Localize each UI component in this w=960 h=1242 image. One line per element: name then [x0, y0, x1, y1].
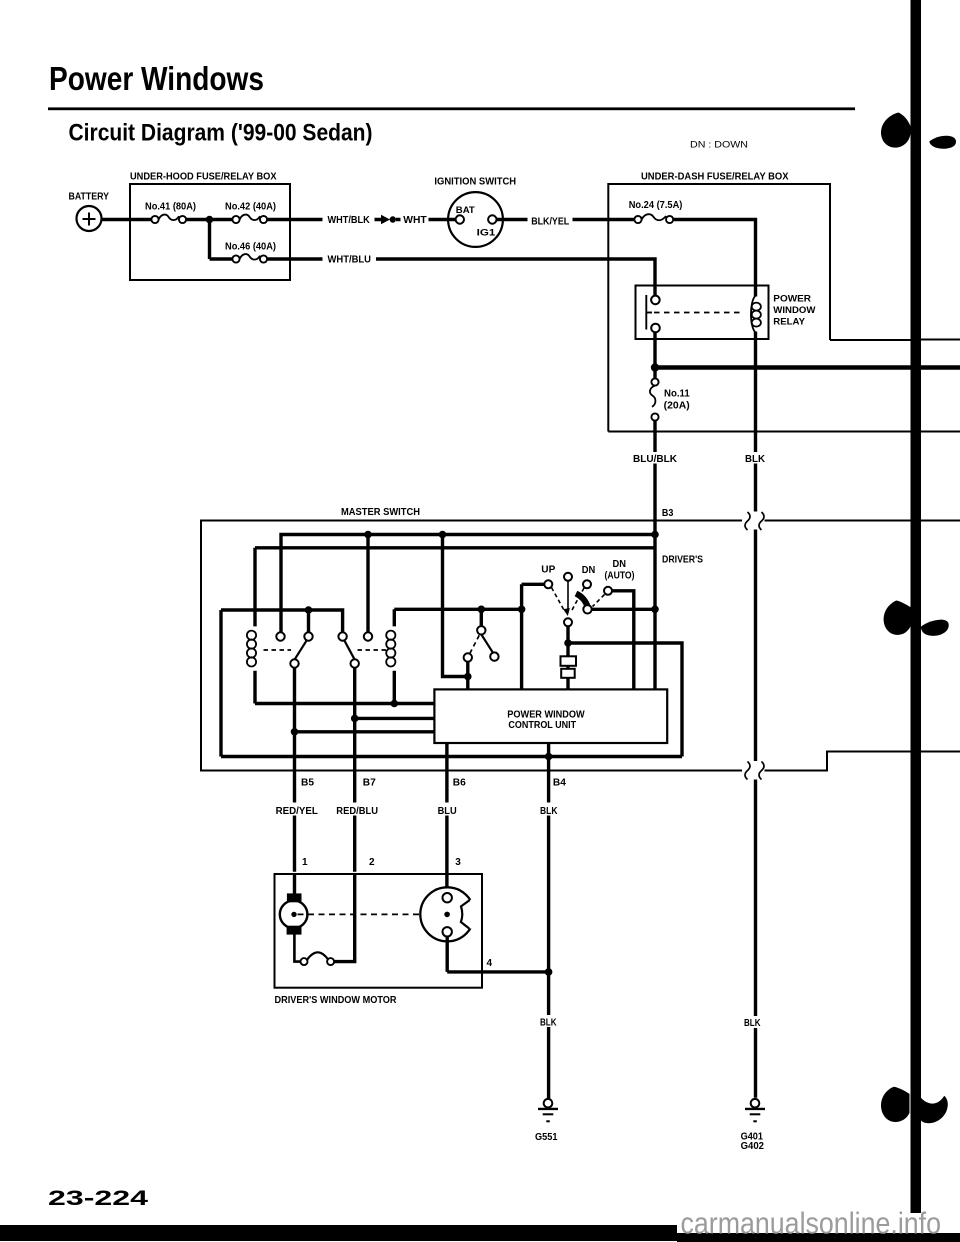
svg-text:BLK/YEL: BLK/YEL [531, 217, 569, 228]
svg-text:POWER: POWER [773, 294, 811, 305]
svg-text:No.24 (7.5A): No.24 (7.5A) [629, 200, 683, 211]
svg-text:RED/YEL: RED/YEL [276, 806, 318, 817]
svg-text:Circuit Diagram ('99-00 Sedan): Circuit Diagram ('99-00 Sedan) [69, 120, 373, 147]
svg-text:DRIVER'S WINDOW MOTOR: DRIVER'S WINDOW MOTOR [275, 995, 398, 1006]
svg-text:B5: B5 [301, 778, 314, 789]
svg-text:BLK: BLK [745, 454, 766, 465]
svg-text:G402: G402 [741, 1141, 765, 1152]
svg-text:RELAY: RELAY [773, 317, 805, 328]
svg-text:No.41 (80A): No.41 (80A) [145, 202, 196, 213]
svg-text:DN: DN [582, 565, 596, 576]
svg-text:MASTER SWITCH: MASTER SWITCH [341, 507, 420, 518]
svg-text:23-224: 23-224 [48, 1186, 148, 1210]
svg-text:1: 1 [302, 857, 308, 868]
svg-text:BLU: BLU [438, 806, 457, 817]
svg-text:WHT/BLK: WHT/BLK [328, 215, 371, 226]
svg-text:UP: UP [541, 565, 555, 576]
svg-text:BAT: BAT [456, 205, 475, 216]
svg-text:DN: DN [613, 559, 627, 570]
svg-text:BLK: BLK [540, 1018, 557, 1029]
svg-text:B7: B7 [363, 778, 376, 789]
svg-text:CONTROL UNIT: CONTROL UNIT [508, 719, 576, 731]
svg-text:BATTERY: BATTERY [69, 192, 110, 203]
svg-text:(20A): (20A) [664, 401, 690, 412]
svg-text:No.46 (40A): No.46 (40A) [225, 242, 276, 253]
svg-text:B6: B6 [453, 778, 466, 789]
svg-text:WHT: WHT [403, 215, 426, 226]
svg-text:B4: B4 [553, 778, 566, 789]
svg-text:Power Windows: Power Windows [49, 60, 264, 97]
svg-text:No.42 (40A): No.42 (40A) [225, 202, 276, 213]
svg-text:BLU/BLK: BLU/BLK [633, 454, 678, 465]
svg-text:UNDER-HOOD FUSE/RELAY BOX: UNDER-HOOD FUSE/RELAY BOX [130, 172, 277, 183]
svg-text:RED/BLU: RED/BLU [336, 806, 378, 817]
svg-text:DN : DOWN: DN : DOWN [690, 140, 748, 150]
svg-text:G551: G551 [535, 1132, 558, 1143]
svg-text:WINDOW: WINDOW [773, 305, 815, 316]
svg-text:3: 3 [455, 857, 461, 868]
svg-text:WHT/BLU: WHT/BLU [328, 255, 372, 266]
svg-text:2: 2 [369, 857, 375, 868]
svg-text:BLK: BLK [744, 1018, 761, 1029]
svg-text:UNDER-DASH FUSE/RELAY BOX: UNDER-DASH FUSE/RELAY BOX [641, 172, 789, 183]
svg-text:B3: B3 [662, 508, 674, 519]
svg-text:BLK: BLK [540, 806, 558, 817]
svg-text:No.11: No.11 [664, 389, 690, 400]
svg-text:IGNITION SWITCH: IGNITION SWITCH [434, 176, 516, 187]
svg-text:DRIVER'S: DRIVER'S [662, 555, 703, 566]
svg-text:(AUTO): (AUTO) [605, 571, 635, 582]
svg-text:carmanualsonline.info: carmanualsonline.info [681, 1207, 942, 1241]
svg-text:IG1: IG1 [477, 228, 497, 239]
svg-text:4: 4 [487, 958, 493, 969]
